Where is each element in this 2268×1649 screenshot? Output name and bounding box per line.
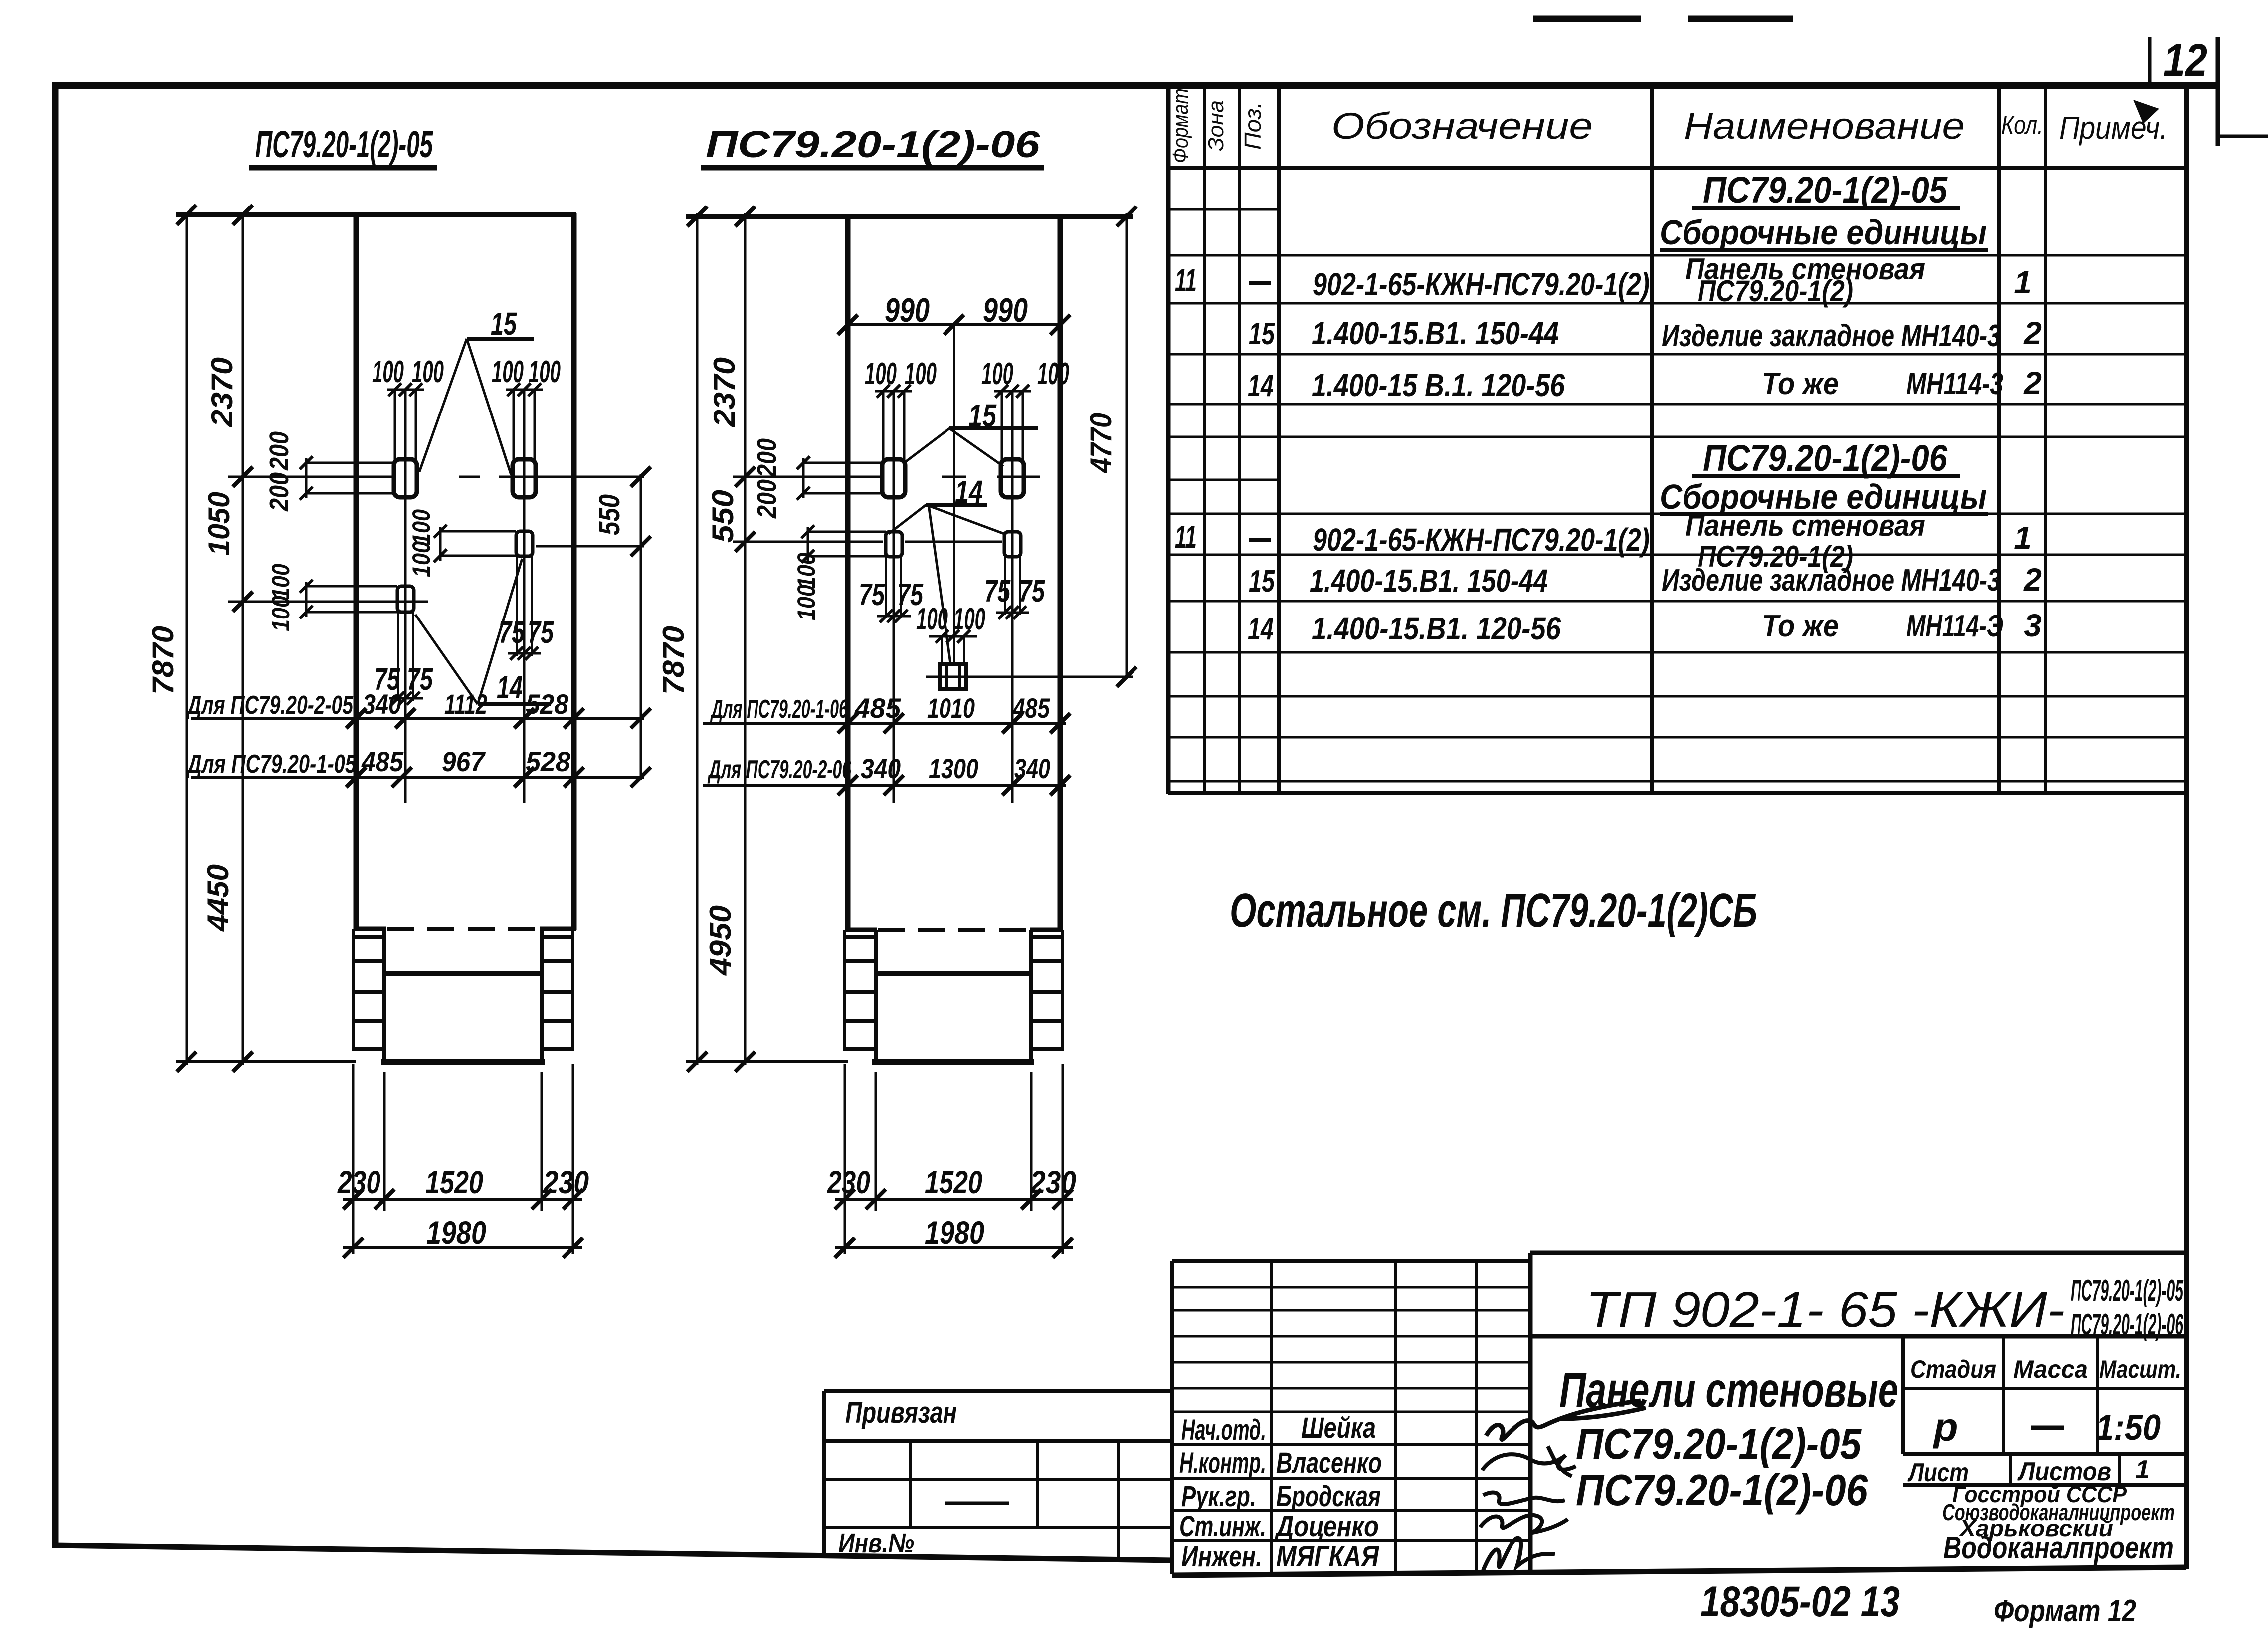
svg-text:Н.контр.: Н.контр. (1179, 1447, 1266, 1479)
svg-text:14: 14 (497, 669, 523, 705)
svg-text:75: 75 (407, 662, 433, 697)
dim line 7870 panel2 (696, 213, 699, 1065)
staff col divider 2 (1394, 1261, 1397, 1574)
table bottom line (1168, 791, 2186, 795)
svg-text:2: 2 (2023, 562, 2042, 598)
svg-text:7870: 7870 (146, 626, 180, 695)
staff table left edge (1170, 1261, 1174, 1574)
panel2 bottom 230/1520/230 dim (844, 1064, 846, 1254)
svg-text:75: 75 (984, 574, 1011, 609)
svg-text:550: 550 (593, 494, 626, 535)
svg-text:Власенко: Власенко (1276, 1447, 1382, 1479)
svg-text:340: 340 (1014, 753, 1050, 784)
svg-text:Для ПС79.20-1-05: Для ПС79.20-1-05 (186, 750, 357, 779)
dim 100 100 left of row3 embed (306, 585, 397, 588)
svg-text:1980: 1980 (426, 1214, 486, 1251)
svg-text:Привязан: Привязан (845, 1396, 957, 1429)
svg-text:1050: 1050 (202, 492, 236, 556)
staff table top (1172, 1259, 1530, 1263)
title 1 underline (249, 165, 437, 171)
small table col 2 (1036, 1441, 1039, 1527)
svg-text:Изделие закладное МН140-3: Изделие закладное МН140-3 (1662, 319, 2001, 353)
panel2 right teeth (1031, 935, 1064, 939)
svg-text:МН114-3: МН114-3 (1906, 367, 2003, 401)
title area top line (1530, 1251, 2186, 1255)
svg-text:15: 15 (1249, 317, 1275, 351)
small table cell dash (945, 1502, 1009, 1505)
dim line 2370/550/4950 panel2 (744, 213, 747, 1065)
stage header underline (1903, 1387, 2186, 1390)
staff col divider 1 (1270, 1261, 1273, 1574)
svg-text:11: 11 (1175, 519, 1197, 555)
panel1 footing column right edge (540, 929, 544, 1063)
panel1 bottom 1980 dim (343, 1246, 582, 1249)
embed 15 left (panel2 row1) (882, 459, 905, 497)
column Кол/Примеч divider (2044, 84, 2047, 794)
svg-text:2370: 2370 (708, 357, 741, 427)
svg-text:100: 100 (1037, 357, 1069, 391)
svg-text:1.400-15.В1. 150-44: 1.400-15.В1. 150-44 (1312, 315, 1559, 351)
svg-text:902-1-65-КЖН-ПС79.20-1(2): 902-1-65-КЖН-ПС79.20-1(2) (1313, 522, 1650, 558)
frame top border (52, 82, 2218, 89)
signature Власенко (1482, 1446, 1576, 1476)
svg-text:ПС79.20-1(2)-05: ПС79.20-1(2)-05 (1576, 1419, 1862, 1468)
svg-text:7870: 7870 (657, 626, 690, 695)
signature Мягкая (1483, 1538, 1555, 1570)
small table col 3 (1117, 1441, 1120, 1558)
dim 75 75 under panel2 row2 left (877, 615, 911, 618)
svg-text:1.400-15.В1. 120-56: 1.400-15.В1. 120-56 (1312, 611, 1561, 646)
panel2 row1 axis line (733, 476, 880, 478)
line under stage row (1903, 1452, 2186, 1456)
svg-text:1520: 1520 (425, 1164, 483, 1200)
dim 75 75 under row3 embed (389, 697, 423, 700)
svg-text:75: 75 (528, 616, 554, 650)
svg-text:Панели стеновые: Панели стеновые (1559, 1362, 1898, 1417)
bottom embed 14 (panel2) (940, 664, 966, 689)
panel1 right tooth edge (571, 929, 574, 1050)
svg-text:Формат: Формат (1168, 88, 1193, 163)
panel1 right edge (571, 213, 577, 930)
panel2 left tooth edge (843, 930, 846, 1050)
svg-text:ПС79.20-1(2): ПС79.20-1(2) (1698, 274, 1853, 308)
svg-text:ТП 902-1- 65 -КЖИ-: ТП 902-1- 65 -КЖИ- (1586, 1282, 2065, 1338)
svg-text:485: 485 (1012, 692, 1050, 724)
svg-text:Для ПС79.20-2-05: Для ПС79.20-2-05 (186, 691, 354, 720)
svg-text:Инжен.: Инжен. (1181, 1540, 1262, 1573)
svg-text:Для ПС79.20-1-06: Для ПС79.20-1-06 (710, 695, 848, 724)
panel1 bottom dim reference line (176, 1060, 356, 1063)
panel1 right teeth (542, 935, 574, 939)
svg-text:Наименование: Наименование (1684, 105, 1965, 147)
column Зона/Поз divider (1238, 84, 1241, 794)
row2 axis extension right (536, 545, 644, 548)
staff empty row lines (1172, 1286, 1530, 1289)
column Формат/Зона divider (1203, 84, 1206, 794)
svg-text:200: 200 (264, 431, 294, 471)
small table line 2 (824, 1439, 1172, 1443)
svg-text:1.400-15.В1. 150-44: 1.400-15.В1. 150-44 (1310, 563, 1548, 599)
table left edge (1166, 84, 1171, 794)
svg-text:15: 15 (491, 306, 517, 342)
panel1 left teeth (352, 935, 384, 939)
row1 axis line (228, 476, 396, 478)
dim row B panel1 (191, 776, 644, 779)
column Наименование/Кол divider (1997, 84, 2001, 794)
svg-text:МН114-Э: МН114-Э (1906, 609, 2003, 643)
svg-text:Шейка: Шейка (1301, 1412, 1376, 1444)
staff named row lines (1172, 1443, 1530, 1446)
svg-text:ПС79.20-1(2)-06: ПС79.20-1(2)-06 (706, 123, 1041, 165)
top scan mark 2 (1688, 16, 1793, 22)
svg-text:230: 230 (337, 1164, 380, 1200)
panel2 right edge (1058, 214, 1063, 931)
svg-text:Изделие закладное МН140-3: Изделие закладное МН140-3 (1662, 563, 2001, 598)
spec group2 row: поз dash (1249, 538, 1271, 542)
svg-text:1520: 1520 (925, 1164, 982, 1200)
svg-text:340: 340 (861, 753, 901, 784)
panel2 bottom step right (1030, 928, 1062, 932)
signature Доценко (1480, 1515, 1568, 1533)
svg-text:Для ПС79.20-2-06: Для ПС79.20-2-06 (707, 755, 851, 784)
svg-text:100: 100 (407, 541, 435, 577)
svg-text:Формат 12: Формат 12 (1994, 1594, 2136, 1628)
panel1 footing dashed joint line (387, 927, 540, 931)
panel2 right tooth edge (1061, 930, 1064, 1050)
svg-text:967: 967 (442, 746, 486, 777)
dim row B panel2 (703, 784, 1066, 787)
svg-text:11: 11 (1175, 262, 1197, 298)
svg-text:1112: 1112 (444, 688, 487, 720)
svg-text:100: 100 (865, 357, 897, 391)
svg-text:1: 1 (2014, 264, 2032, 300)
svg-text:14: 14 (1248, 369, 1274, 403)
embed 14 row2 right (panel2) (1004, 532, 1021, 557)
panel2 bottom step left (846, 928, 877, 932)
small table top line (824, 1389, 1172, 1393)
embed 15 left (row1) (394, 459, 417, 497)
table header bottom line (1168, 166, 2186, 170)
staff col divider 3 (1475, 1261, 1478, 1574)
panel1 footing bottom edge (381, 1059, 545, 1065)
dim 100 100 left of row2 embed (440, 530, 516, 533)
svg-text:Сборочные единицы: Сборочные единицы (1660, 213, 1987, 252)
svg-text:990: 990 (885, 291, 930, 329)
panel2 bottom dim reference line (686, 1060, 848, 1063)
svg-text:То же: То же (1762, 609, 1839, 643)
svg-text:Доценко: Доценко (1274, 1510, 1379, 1543)
sheet number box left line (2148, 37, 2152, 86)
svg-text:1980: 1980 (925, 1214, 984, 1251)
column Обозначение/Наименование divider (1650, 84, 1654, 794)
svg-text:Масса: Масса (2013, 1355, 2088, 1383)
svg-text:75: 75 (1019, 574, 1045, 609)
column Поз/Обозначение divider (1277, 84, 1281, 794)
panel1 left tooth edge (352, 929, 355, 1050)
svg-text:100: 100 (916, 602, 948, 636)
svg-text:902-1-65-КЖН-ПС79.20-1(2): 902-1-65-КЖН-ПС79.20-1(2) (1313, 266, 1650, 302)
svg-text:2: 2 (2023, 315, 2042, 351)
frame left border (52, 83, 59, 1546)
svg-text:Бродская: Бродская (1276, 1480, 1381, 1513)
dim 990 990 top (848, 323, 1060, 326)
svg-text:1: 1 (2014, 520, 2032, 556)
svg-text:230: 230 (827, 1164, 870, 1200)
row3 axis line (228, 601, 428, 603)
panel2 bottom 1980 dim (835, 1246, 1073, 1249)
svg-text:Ст.инж.: Ст.инж. (1179, 1510, 1266, 1543)
svg-text:485: 485 (361, 746, 404, 777)
svg-text:Остальное см. ПС79.20-1(2)СБ: Остальное см. ПС79.20-1(2)СБ (1230, 884, 1757, 937)
svg-text:Стадия: Стадия (1910, 1355, 1996, 1383)
svg-text:75: 75 (859, 578, 885, 612)
svg-text:100: 100 (529, 355, 561, 389)
svg-text:ПС79.20-1(2)-05: ПС79.20-1(2)-05 (1703, 169, 1948, 210)
title area divider vertical (1528, 1253, 1533, 1574)
line under Лист row (1903, 1483, 2186, 1487)
svg-text:200: 200 (264, 472, 294, 512)
sheet number box right line (2216, 37, 2220, 146)
svg-text:2370: 2370 (205, 357, 239, 427)
small table left edge (822, 1391, 826, 1558)
svg-text:ПС79.20-1(2)-06: ПС79.20-1(2)-06 (1703, 437, 1948, 479)
panel2 vertical centerline (953, 325, 955, 664)
frame right border (2184, 84, 2189, 1569)
dim row A panel1 (191, 717, 644, 720)
svg-text:Панель стеновая: Панель стеновая (1685, 509, 1925, 542)
embed 15 right (panel2 row1) (1001, 459, 1024, 497)
dim 75 75 under row2 embed (508, 652, 541, 655)
embed 14 row3 left column (397, 586, 414, 612)
svg-text:230: 230 (1030, 1164, 1076, 1200)
embed 14 row2 left (panel2) (886, 532, 902, 557)
panel1 footing joint line (384, 971, 542, 976)
svg-text:1300: 1300 (929, 753, 978, 784)
table row lines (1168, 208, 1279, 211)
svg-text:2: 2 (2023, 365, 2042, 401)
svg-text:ПС79.20-1(2)-05: ПС79.20-1(2)-05 (2071, 1274, 2184, 1307)
svg-text:15: 15 (1249, 564, 1275, 599)
dim 75 75 under panel2 row2 right (996, 612, 1029, 614)
panel1 bottom step left (354, 927, 386, 931)
dim 550 vertical right (640, 474, 642, 780)
svg-text:528: 528 (526, 688, 569, 720)
spec row: поз dash (1249, 281, 1271, 285)
svg-text:100: 100 (407, 509, 435, 545)
svg-text:3: 3 (2024, 608, 2042, 643)
svg-text:ПС79.20-1(2)-05: ПС79.20-1(2)-05 (255, 123, 433, 165)
dim line 2370/1050/4450 panel1 (242, 212, 244, 1065)
panel2 footing dashed joint line (878, 928, 1030, 932)
svg-text:528: 528 (526, 746, 571, 777)
svg-text:1:50: 1:50 (2096, 1408, 2161, 1447)
panel2 footing column left edge (874, 930, 878, 1063)
svg-text:ПС79.20-1(2)-06: ПС79.20-1(2)-06 (1576, 1465, 1868, 1515)
svg-text:1.400-15 В.1. 120-56: 1.400-15 В.1. 120-56 (1312, 367, 1565, 403)
top scan mark 1 (1533, 16, 1641, 22)
svg-text:100: 100 (412, 355, 444, 389)
header Примеч artifact mark (2133, 100, 2159, 124)
svg-text:МЯГКАЯ: МЯГКАЯ (1276, 1540, 1379, 1573)
svg-text:200: 200 (752, 438, 782, 478)
panel1 bottom step right (540, 927, 576, 931)
svg-text:100: 100 (792, 553, 820, 589)
frame bottom border left part (52, 1545, 1173, 1560)
panel2 footing joint line (876, 971, 1031, 976)
panel2 footing column right edge (1029, 930, 1033, 1063)
stage area divider (1901, 1336, 1905, 1454)
signature Бродская (1483, 1493, 1565, 1504)
bottom embed axis to 4770 line (926, 676, 1133, 678)
svg-text:Обозначение: Обозначение (1331, 105, 1593, 147)
panel2 footing bottom edge (872, 1059, 1034, 1065)
svg-text:14: 14 (1248, 612, 1274, 646)
svg-text:То же: То же (1762, 367, 1839, 401)
embed 14 row2 right column (516, 531, 533, 556)
dim 200 200 panel2 (803, 462, 882, 464)
dim row A panel2 (703, 722, 1066, 725)
svg-text:Зона: Зона (1204, 100, 1228, 151)
svg-text:230: 230 (543, 1164, 589, 1200)
dim line 7870 panel1 (186, 212, 188, 1065)
svg-text:Поз.: Поз. (1240, 102, 1266, 150)
dim 200 200 left of row1 (306, 462, 394, 464)
panel2 left teeth (843, 935, 876, 939)
svg-text:550: 550 (706, 490, 740, 543)
panel1 bottom 230/1520/230 dim (352, 1064, 355, 1254)
svg-text:18305-02 13: 18305-02 13 (1701, 1578, 1900, 1626)
svg-text:4950: 4950 (704, 905, 737, 976)
svg-text:100: 100 (792, 585, 820, 620)
svg-text:1: 1 (2135, 1455, 2150, 1484)
panel1 footing column left edge (382, 929, 386, 1063)
svg-text:Рук.гр.: Рук.гр. (1181, 1480, 1256, 1513)
dim 4770 vertical (1126, 213, 1128, 679)
svg-text:Инв.№: Инв.№ (838, 1528, 914, 1558)
svg-text:200: 200 (752, 479, 782, 519)
title 2 underline (701, 165, 1044, 171)
panel2 row2 axis (733, 541, 883, 543)
svg-text:Водоканалпроект: Водоканалпроект (1943, 1531, 2174, 1565)
panel2 left edge (845, 214, 851, 931)
mass dash (2031, 1426, 2064, 1430)
dim 100 100 left of panel2 row2 (808, 531, 886, 533)
embed 15 right (row1) (513, 459, 536, 497)
svg-text:Масшт.: Масшт. (2099, 1355, 2181, 1383)
svg-text:990: 990 (983, 291, 1028, 329)
svg-text:р: р (1933, 1405, 1958, 1449)
svg-text:1010: 1010 (927, 692, 975, 724)
svg-text:4770: 4770 (1084, 413, 1118, 473)
svg-text:340: 340 (363, 688, 401, 720)
small table col 1 (909, 1441, 912, 1527)
line under ТП row (1530, 1334, 2186, 1339)
panel2 top edge with extensions (686, 214, 1133, 219)
svg-text:Кол.: Кол. (2001, 111, 2043, 140)
signature Шейка (1486, 1401, 1646, 1440)
svg-text:4450: 4450 (201, 864, 235, 932)
svg-text:Нач.отд.: Нач.отд. (1181, 1414, 1266, 1446)
panel1 left edge (354, 213, 359, 930)
svg-text:100: 100 (267, 564, 295, 600)
edge mark right (2218, 135, 2268, 138)
small table row line (824, 1478, 1172, 1481)
svg-text:485: 485 (854, 692, 901, 724)
title block bottom line (1172, 1567, 2186, 1575)
svg-text:12: 12 (2163, 35, 2207, 86)
small table row line 2 (824, 1526, 1172, 1529)
panel1 top edge with left dim extension (176, 212, 576, 217)
